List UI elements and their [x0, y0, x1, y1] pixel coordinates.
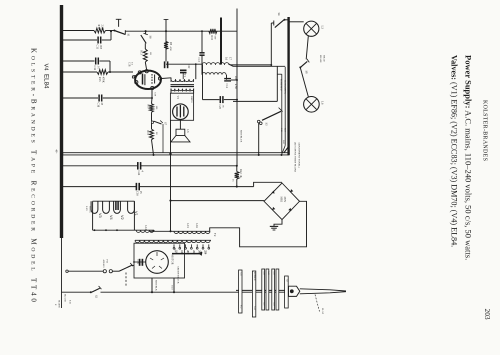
- svg-text:250V: 250V: [283, 197, 286, 203]
- V4 pin circles: [138, 71, 141, 74]
- wire R13 to V4 top: [145, 62, 146, 70]
- svg-text:250: 250: [203, 250, 206, 255]
- V3 electrodes: [177, 105, 184, 118]
- motor M1: [146, 251, 169, 274]
- svg-text:(S10 OPENS WHEN MAINS: (S10 OPENS WHEN MAINS: [294, 142, 297, 173]
- screened lead wire b: [284, 67, 286, 146]
- capacitor C12: [95, 58, 97, 65]
- motor capacitor C19: [139, 259, 141, 266]
- vertical wire x237: [236, 9, 238, 166]
- capacitor C21 bars: [164, 61, 166, 68]
- switch S1 top stub: [118, 19, 120, 27]
- wire to S2a: [112, 270, 119, 272]
- svg-text:C18: C18: [128, 62, 131, 67]
- connector body: [289, 286, 300, 296]
- junction W1c-S6: [145, 30, 147, 32]
- T2 heater winding L14: [136, 230, 154, 232]
- wire S4 left: [271, 22, 274, 24]
- socket contacts: [103, 270, 106, 273]
- wire R19 to heater line: [152, 140, 154, 155]
- wire W6: [166, 63, 203, 65]
- wire motor cap: [134, 261, 146, 263]
- screened lead wire a: [281, 74, 283, 153]
- svg-text:L6: L6: [321, 101, 325, 105]
- gang link dashed: [125, 273, 127, 288]
- wire R22 bottom: [236, 179, 238, 187]
- heater rail top: [93, 200, 135, 202]
- svg-text:1K: 1K: [149, 52, 152, 55]
- svg-text:MOTOR: MOTOR: [171, 255, 174, 265]
- svg-text:470K: 470K: [102, 77, 105, 83]
- svg-text:R22: R22: [239, 169, 242, 174]
- svg-text:C10: C10: [97, 103, 100, 108]
- MR1 arrow top-right: [289, 189, 293, 193]
- wire S4 to bus: [285, 19, 289, 21]
- lamp L3: [304, 21, 319, 36]
- wire W9 to rectifier: [171, 200, 265, 202]
- wire W8b: [139, 186, 253, 188]
- V3 box: [170, 93, 193, 120]
- svg-text:R13: R13: [140, 51, 143, 56]
- junction on bus W2: [61, 39, 63, 41]
- svg-text:L3: L3: [321, 26, 325, 30]
- svg-text:L14: L14: [144, 226, 147, 231]
- wire mains lower b: [101, 291, 289, 293]
- capacitor C11: [97, 37, 99, 44]
- svg-text:Valves: (V1) EF86; (V2) ECC8: Valves: (V1) EF86; (V2) ECC83; (V3) DM70…: [450, 55, 459, 247]
- vertical x271: [270, 23, 272, 66]
- resistor R19: [150, 129, 154, 140]
- svg-text:MAINS: MAINS: [58, 300, 61, 308]
- wire S3 down: [258, 123, 260, 155]
- rectifier MR1 diamond: [264, 183, 300, 220]
- switch S10 blade: [284, 146, 289, 153]
- wire W5b: [103, 97, 152, 99]
- svg-text:BLACK: BLACK: [64, 294, 67, 302]
- svg-text:R18: R18: [210, 36, 213, 41]
- T1 core lines: [171, 84, 195, 86]
- svg-text:L15: L15: [186, 224, 189, 229]
- wire L1 lower right down: [226, 75, 228, 80]
- wire W2 from bus: [63, 39, 97, 41]
- plug pin bars: [239, 270, 242, 313]
- junction on bus W7: [61, 165, 63, 167]
- svg-text:47K: 47K: [169, 47, 172, 52]
- heater rail left drop: [92, 201, 94, 230]
- T2 heater rail: [93, 229, 154, 231]
- lamp L6: [304, 97, 320, 113]
- junction on bus W4: [61, 71, 63, 73]
- T1 secondary terminals: [170, 89, 172, 94]
- wire W8 step: [254, 182, 282, 186]
- junction dbl V3 column: [169, 153, 171, 155]
- wire W1c long: [125, 30, 237, 32]
- T1 secondary winding: [171, 89, 194, 91]
- L1 left vertical: [201, 31, 203, 52]
- wire S7 down: [151, 123, 153, 129]
- capacitor C22 bars: [180, 69, 187, 71]
- wire C14 to x237: [231, 79, 237, 81]
- heater rail right drop: [133, 201, 135, 230]
- wire rect right vertex: [210, 201, 307, 247]
- svg-text:RED/BLK: RED/BLK: [155, 280, 158, 291]
- switch S7: [151, 121, 153, 123]
- L1 lower winding: [202, 73, 226, 75]
- screened lead diag: [282, 146, 286, 155]
- switch S4: [273, 21, 275, 26]
- junction W1c-R9 branch: [165, 30, 167, 32]
- wire W2 riser: [110, 31, 112, 40]
- svg-text:R14: R14: [97, 25, 100, 30]
- V4 heater curl: [132, 76, 136, 79]
- wire W1 from bus: [63, 30, 94, 32]
- svg-text:SCREENED: SCREENED: [279, 79, 281, 91]
- motor box: [134, 243, 185, 278]
- T2 sec rail: [150, 230, 210, 232]
- L1 upper winding: [202, 63, 229, 65]
- resistor R13 above V4: [143, 49, 147, 62]
- T2 primary winding L17: [135, 240, 210, 242]
- T2 voltage taps: [173, 244, 175, 247]
- junction dbl screened: [280, 154, 282, 156]
- wire W3 from bus: [63, 60, 95, 62]
- svg-text:40+: 40+: [55, 150, 58, 155]
- svg-text:HTRS.: HTRS.: [89, 206, 92, 213]
- wire L1 upper right out: [230, 64, 271, 66]
- wire W4 from bus: [63, 71, 97, 73]
- junction on bus W5: [61, 97, 63, 99]
- switch S2a blade: [119, 265, 132, 271]
- svg-text:T1: T1: [183, 74, 187, 78]
- junction T2 rail b: [169, 230, 171, 232]
- svg-text:6.3V: 6.3V: [85, 206, 88, 211]
- wire S6 to R13: [144, 43, 146, 49]
- svg-text:C22: C22: [187, 64, 190, 69]
- junction dbl bus: [61, 153, 63, 155]
- svg-text:4.7K: 4.7K: [234, 84, 237, 89]
- svg-text:DM70: DM70: [190, 96, 193, 103]
- wire C13 to L1: [201, 55, 203, 65]
- switch S2b blade: [92, 288, 100, 292]
- wire mains lower: [62, 291, 91, 293]
- svg-text:R20: R20: [234, 76, 237, 81]
- MR1 arrow bottom-right: [288, 208, 292, 212]
- svg-text:R15: R15: [98, 77, 101, 82]
- resistor R9 on x166: [164, 41, 168, 49]
- wire R17 to S7: [151, 112, 153, 121]
- wire W3 dropper: [109, 61, 111, 72]
- svg-text:2.2M: 2.2M: [101, 25, 104, 31]
- speaker frame: [176, 129, 185, 135]
- svg-text:LEAD (GREY): LEAD (GREY): [284, 80, 287, 94]
- svg-text:C23: C23: [218, 105, 221, 110]
- junction dbl cathode: [152, 154, 154, 156]
- junction dbl S3: [258, 154, 260, 156]
- svg-text:KOLSTER-BRANDES TAPE RECORDER: KOLSTER-BRANDES TAPE RECORDER MODEL TT40: [30, 48, 38, 305]
- svg-text:KOLSTER-BRANDES: KOLSTER-BRANDES: [482, 100, 488, 161]
- svg-text:V3: V3: [98, 213, 102, 218]
- speaker horn: [171, 136, 190, 142]
- svg-text:C16: C16: [136, 191, 139, 196]
- MR1 arrow top-left: [272, 191, 276, 195]
- L1 core bar: [220, 18, 222, 65]
- wire W1b: [106, 30, 115, 32]
- heater V1: [128, 201, 135, 213]
- motor pole marks: [150, 252, 164, 269]
- svg-text:ERASE: ERASE: [319, 55, 322, 63]
- heater V4: [103, 201, 110, 213]
- svg-text:GREEN/BLACK: GREEN/BLACK: [177, 266, 180, 284]
- junction W1c core bar: [220, 30, 222, 32]
- T1 primary left terminal: [170, 78, 172, 80]
- resistor R22: [235, 172, 239, 179]
- svg-text:.005: .005: [99, 45, 102, 50]
- junction W3-W4: [109, 71, 111, 73]
- junction x170.5 W9: [169, 200, 171, 202]
- wire screen lower b: [224, 99, 237, 101]
- wire motor down lead: [151, 278, 153, 292]
- ground symbol: [270, 225, 278, 227]
- wire W8 from bus: [63, 186, 136, 188]
- vertical x202.5 from W6: [202, 64, 204, 99]
- vertical wire x170.5: [170, 120, 172, 231]
- junction on bus W1: [61, 29, 63, 31]
- switch S6 blade: [145, 31, 147, 34]
- junction heater rail: [94, 229, 96, 231]
- wire rectifier to ground: [274, 220, 282, 227]
- T2 voltage selector link: [172, 253, 201, 255]
- junction on bus W8: [61, 186, 63, 188]
- wire W7 from bus: [63, 165, 138, 167]
- svg-text:P12: P12: [240, 305, 242, 308]
- svg-text:R19: R19: [146, 131, 149, 136]
- wire W2b: [102, 39, 111, 41]
- svg-text:MR1: MR1: [280, 197, 283, 203]
- wire screen lower: [203, 99, 220, 101]
- MR1 arrow bottom-left: [271, 207, 275, 211]
- capacitor C14: [224, 78, 231, 80]
- wire W4b to grid: [108, 71, 133, 73]
- junction on bus W3: [61, 60, 63, 62]
- svg-text:HEAD: HEAD: [322, 55, 325, 62]
- svg-text:EL84: EL84: [43, 74, 50, 89]
- wire bus to lamp L3: [289, 21, 304, 23]
- switch S8 blade: [300, 61, 307, 67]
- svg-text:C13: C13: [197, 58, 200, 63]
- svg-text:C24: C24: [137, 171, 140, 176]
- V3 envelope: [173, 104, 189, 120]
- wire S9 row: [68, 270, 103, 272]
- svg-text:ADJUSTMENT PANEL): ADJUSTMENT PANEL): [298, 142, 301, 168]
- svg-text:V2: V2: [120, 215, 124, 220]
- mains lead continuation of left rail: [61, 238, 63, 308]
- connector cable: [300, 289, 346, 294]
- wire R22 top: [236, 166, 238, 172]
- plug lead upper line: [236, 289, 288, 291]
- capacitor C24: [137, 162, 139, 170]
- svg-text:Power Supply: A.C. mains, 110: Power Supply: A.C. mains, 110–240 volts,…: [464, 55, 474, 260]
- heater line lower: [63, 154, 289, 156]
- deck box top edge: [229, 64, 234, 67]
- wire W7b: [141, 165, 237, 167]
- svg-text:FLAT: FLAT: [321, 308, 324, 314]
- vertical x166: [165, 19, 167, 61]
- resistor R18: [209, 29, 217, 34]
- HT+ bus (right thick rail): [287, 17, 289, 155]
- HT- bus (left thick rail): [60, 5, 63, 238]
- T1 primary winding: [171, 79, 194, 81]
- capacitor C23: [219, 96, 221, 103]
- T1 primary right terminal: [195, 64, 197, 79]
- svg-text:A19: A19: [273, 271, 276, 275]
- resistor R17: [150, 104, 154, 113]
- heater line upper: [63, 152, 289, 154]
- V4 electrodes: [142, 74, 144, 85]
- deck box bottom edge: [233, 100, 277, 102]
- svg-text:1K: 1K: [239, 175, 242, 178]
- T2 rect winding L15: [174, 231, 210, 233]
- svg-text:V1: V1: [134, 211, 138, 216]
- wire S8 to lamp L6: [300, 68, 308, 98]
- wire S2a to motor box: [132, 264, 134, 266]
- svg-text:C12: C12: [93, 66, 96, 71]
- capacitor C13: [199, 52, 204, 54]
- switch S3 blade: [262, 111, 281, 120]
- resistor R15: [97, 70, 108, 75]
- switch S3 circles: [257, 120, 260, 123]
- svg-text:C14: C14: [225, 84, 228, 89]
- switch S1 blade: [114, 31, 125, 35]
- wire V4 anode: [162, 77, 171, 80]
- wire L1 rows left join: [201, 65, 203, 75]
- lamp L6 filament cross: [306, 99, 316, 109]
- resistor R14: [94, 28, 106, 33]
- svg-text:SCREEN: SCREEN: [253, 272, 255, 281]
- lamp L3 filament cross: [306, 24, 316, 34]
- wire V3 to speaker: [179, 120, 181, 129]
- svg-text:R17: R17: [146, 105, 149, 110]
- wire W5 from bus: [63, 97, 98, 99]
- heater V2: [114, 201, 121, 213]
- svg-text:400/410: 400/410: [102, 260, 105, 269]
- junction T2 rail a: [152, 230, 154, 232]
- wire motor green lead: [173, 278, 175, 292]
- svg-text:RED/BLUE: RED/BLUE: [240, 130, 243, 143]
- svg-text:C11: C11: [96, 45, 99, 50]
- deck box right edge: [276, 66, 278, 101]
- svg-text:V4: V4: [43, 64, 49, 72]
- svg-text:V4: V4: [109, 215, 113, 220]
- capacitor C10: [98, 95, 100, 102]
- heater V3: [91, 201, 98, 213]
- wire S7 alt contact: [162, 124, 164, 153]
- svg-text:T2: T2: [213, 233, 217, 237]
- wire lamp L3 down: [306, 36, 308, 59]
- capacitor C16: [135, 183, 137, 191]
- svg-text:L16: L16: [195, 224, 198, 229]
- svg-text:203: 203: [483, 309, 492, 320]
- valve V4 envelope: [135, 71, 161, 89]
- pointer to lead: [315, 295, 320, 312]
- wire V4 cathode: [151, 90, 153, 98]
- T2 primary line: [135, 239, 211, 241]
- svg-text:A9: A9: [286, 279, 289, 282]
- wire W3b: [99, 60, 110, 62]
